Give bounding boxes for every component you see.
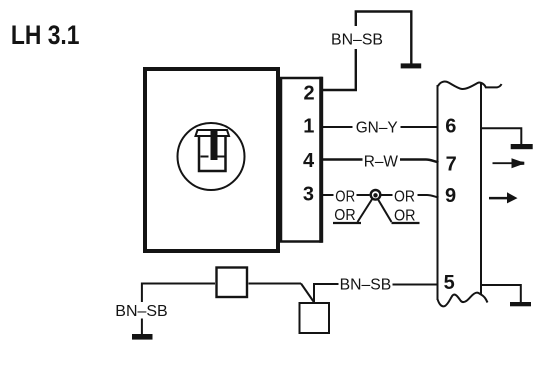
svg-text:GN–Y: GN–Y	[356, 120, 398, 137]
connector pin strip right edge (thick)	[319, 77, 323, 243]
ground right lower	[510, 302, 531, 306]
diagonal junction branch	[301, 284, 314, 302]
harness connector left edge	[437, 85, 439, 300]
wire pin4 R-W right	[400, 160, 439, 163]
valve level ticks	[201, 156, 226, 158]
valve circle symbol	[178, 123, 245, 190]
wire box1 to junction	[249, 283, 302, 285]
harness torn bottom edge	[438, 293, 488, 307]
wire pin1 GN-Y left	[323, 126, 353, 128]
wire pin2 to BN-SB	[323, 49, 356, 90]
relay box2	[300, 303, 330, 333]
wire terminal5 to ground right	[481, 285, 521, 302]
valve cup	[199, 137, 226, 172]
wire pin1 GN-Y right	[401, 126, 439, 128]
arrow terminal 7	[493, 162, 512, 164]
svg-text:OR: OR	[335, 188, 355, 205]
svg-text:R–W: R–W	[364, 154, 399, 171]
arrow terminal 9	[489, 197, 507, 200]
svg-text:BN–SB: BN–SB	[331, 31, 383, 48]
ground lower-left	[132, 334, 153, 340]
underline lower-left	[333, 222, 361, 224]
svg-text:BN–SB: BN–SB	[340, 277, 392, 294]
connector pin strip	[281, 78, 321, 242]
svg-text:OR: OR	[394, 207, 416, 224]
splice joint	[371, 190, 381, 200]
svg-text:7: 7	[446, 154, 457, 176]
wire terminal5 left to BN-SB	[393, 284, 438, 286]
splice branch right	[378, 199, 392, 223]
svg-text:9: 9	[445, 185, 456, 207]
svg-text:2: 2	[303, 82, 314, 104]
wire to ground lower-left	[141, 319, 143, 335]
relay box1	[217, 268, 248, 298]
svg-text:1: 1	[303, 116, 314, 138]
wire box1 left	[142, 284, 215, 303]
ground top	[401, 63, 422, 68]
wire OR to splice	[357, 194, 370, 196]
underline lower-right	[392, 222, 420, 224]
svg-text:OR: OR	[334, 207, 355, 224]
svg-text:BN–SB: BN–SB	[115, 303, 167, 320]
ground right upper	[511, 144, 533, 149]
wire pin3 stub	[323, 194, 334, 196]
valve cap	[196, 130, 230, 136]
wire BN-SB upper segment	[356, 12, 412, 64]
harness torn top edge	[438, 82, 502, 90]
component box (air valve unit)	[145, 69, 278, 251]
wire pin4 R-W left	[323, 158, 363, 160]
svg-text:3: 3	[303, 184, 314, 206]
wire splice to OR	[381, 194, 393, 196]
wire OR to connector	[418, 195, 439, 198]
svg-text:OR: OR	[394, 188, 415, 205]
wire terminal6 to ground	[481, 128, 521, 144]
svg-text:5: 5	[444, 272, 455, 294]
svg-text:LH 3.1: LH 3.1	[11, 20, 80, 50]
harness connector right edge	[480, 84, 482, 295]
svg-text:6: 6	[445, 116, 456, 138]
svg-text:4: 4	[303, 150, 315, 172]
splice branch left	[358, 199, 373, 223]
wire BN-SB to box2	[314, 284, 339, 302]
valve plunger bar	[211, 130, 218, 160]
